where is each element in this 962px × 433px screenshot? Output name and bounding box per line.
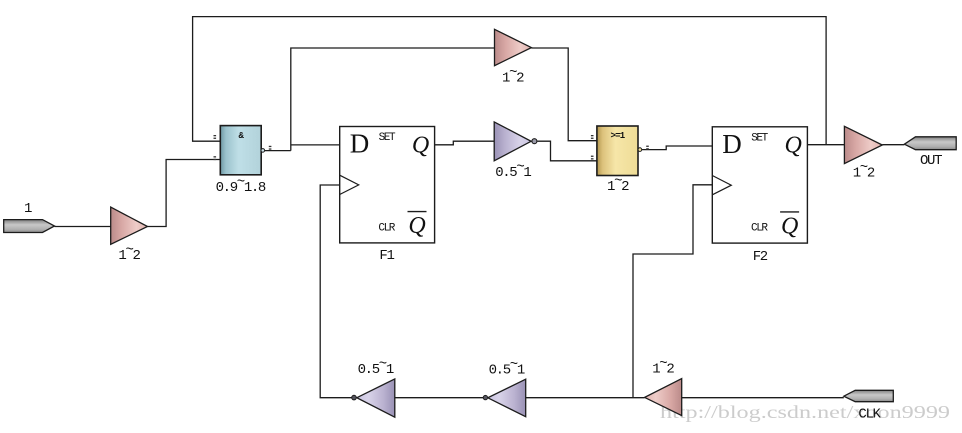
- wire F1 clock down to bottom clock net: [320, 185, 352, 398]
- wire buffer U6 output to OUT connector: [882, 144, 904, 146]
- output connector OUT: [904, 137, 956, 150]
- svg-text:SET: SET: [379, 132, 396, 144]
- svg-text:1~2: 1~2: [652, 356, 674, 378]
- svg-text:1~2: 1~2: [853, 160, 875, 182]
- svg-text:0.5~1: 0.5~1: [495, 160, 531, 182]
- svg-text:Q: Q: [412, 132, 429, 158]
- OR gate U4: [597, 126, 642, 176]
- wire inverter U7 output across junction to inverter U8: [526, 397, 645, 399]
- buffer U6 1~2: [844, 126, 882, 163]
- wire inner feedback from AND output up to top buffer: [291, 48, 495, 151]
- svg-text:D: D: [722, 129, 742, 159]
- input connector 1: [4, 220, 55, 233]
- wire inverter U3 output to OR input B: [537, 141, 597, 161]
- input connector CLK: [844, 390, 894, 401]
- buffer U7 1~2 bottom (points left): [645, 379, 682, 416]
- pin mark OR input A: [591, 135, 594, 139]
- svg-text:Q: Q: [781, 214, 798, 240]
- svg-text:Q: Q: [785, 133, 802, 159]
- D flip-flop F1: [340, 127, 435, 243]
- pin mark AND input B: [214, 156, 217, 160]
- svg-text:D: D: [350, 129, 370, 159]
- svg-text:1~2: 1~2: [118, 242, 140, 264]
- buffer U1 1~2: [111, 207, 148, 244]
- pin mark AND output: [269, 146, 272, 150]
- wire OR output to F2 D input: [642, 146, 712, 150]
- inverter U3 0.5~1: [494, 122, 537, 161]
- wire inverter U8 output to inverter U9: [395, 397, 483, 399]
- wire CLK connector to inverter U7: [682, 397, 844, 399]
- svg-text:1~2: 1~2: [502, 65, 524, 87]
- svg-text:Q: Q: [408, 213, 425, 239]
- wire F2 Q output to buffer U6 and OUT: [807, 144, 844, 146]
- svg-text:CLK: CLK: [858, 407, 881, 423]
- svg-text:0.5~1: 0.5~1: [489, 357, 525, 379]
- wire buffer U1 output to AND input B: [148, 160, 221, 227]
- wire outer feedback from OUT net to AND input A: [193, 17, 827, 145]
- wire input 1 connector to buffer U1: [55, 226, 111, 228]
- AND gate U2: [220, 126, 264, 175]
- top buffer U5 1~2: [495, 29, 532, 65]
- svg-text:CLR: CLR: [751, 223, 768, 235]
- svg-text:F1: F1: [379, 248, 394, 264]
- svg-text:CLR: CLR: [378, 222, 395, 234]
- inverter U8 0.5~1 bottom middle: [483, 379, 526, 417]
- D flip-flop F2: [712, 127, 807, 243]
- pin mark OR input B: [591, 156, 594, 160]
- wire F1 Q output to inverter U3: [435, 141, 495, 145]
- svg-text:&: &: [239, 131, 245, 141]
- svg-text:>=1: >=1: [611, 131, 626, 141]
- svg-text:1: 1: [24, 201, 32, 217]
- inverter U9 0.5~1 bottom left: [352, 379, 395, 417]
- wire node to F1 D input: [291, 144, 340, 146]
- pin mark AND input A: [214, 135, 217, 139]
- svg-text:0.9~1.8: 0.9~1.8: [216, 175, 266, 197]
- wire AND output to node: [265, 150, 291, 152]
- svg-text:OUT: OUT: [920, 153, 942, 169]
- svg-text:0.5~1: 0.5~1: [358, 356, 394, 378]
- svg-text:F2: F2: [753, 249, 768, 265]
- svg-text:http://blog.csdn.net/xoon9999: http://blog.csdn.net/xoon9999: [660, 402, 950, 422]
- svg-text:1~2: 1~2: [607, 174, 629, 196]
- pin mark OR output: [646, 146, 649, 150]
- wire from top buffer output down to OR input A: [531, 48, 597, 141]
- wire F2 clock down to clock net junction: [633, 185, 712, 398]
- svg-text:SET: SET: [751, 132, 768, 144]
